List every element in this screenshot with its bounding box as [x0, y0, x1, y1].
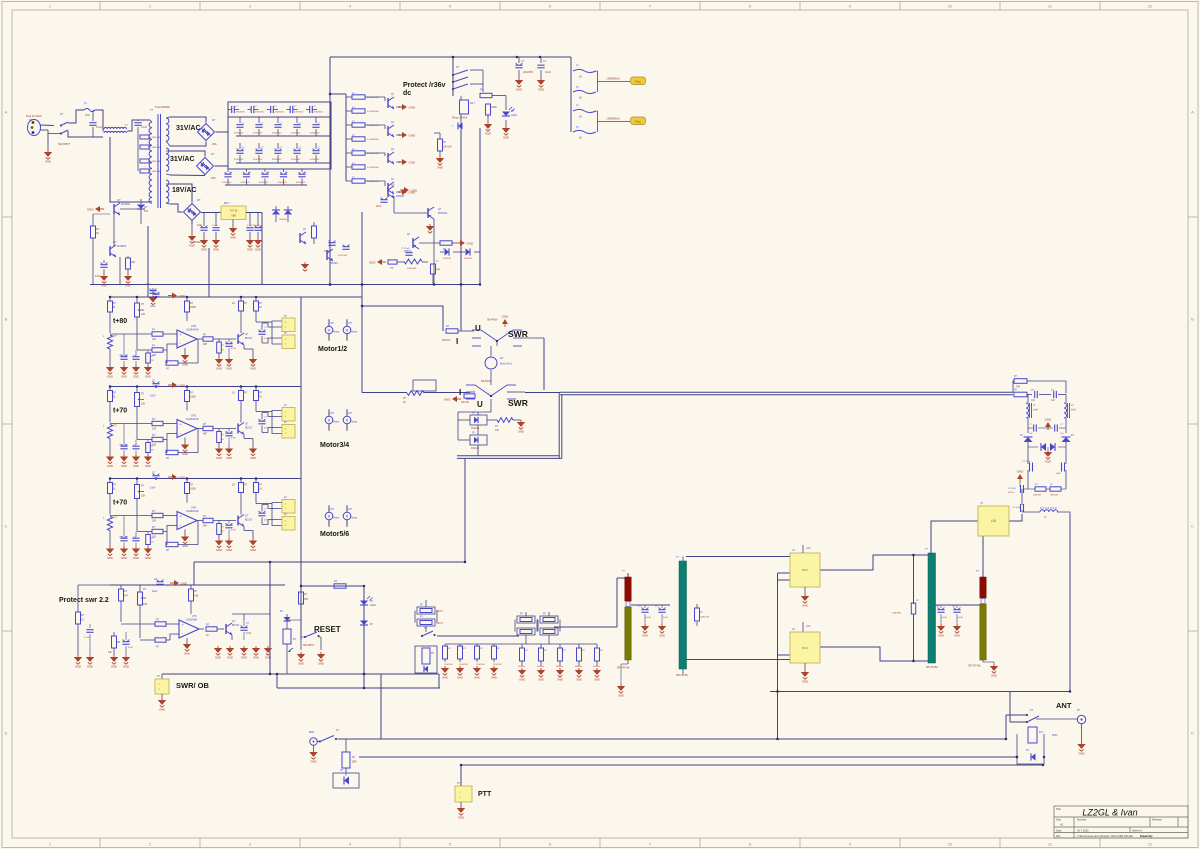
- motor M7: [485, 357, 497, 369]
- svg-text:C:\Documents and Settings\..\S: C:\Documents and Settings\..\Short 6M1 k…: [1077, 834, 1133, 838]
- svg-text:M: M: [346, 329, 349, 333]
- capacitor 47uF protect: [405, 252, 412, 254]
- svg-text:1K: 1K: [81, 619, 84, 622]
- wire regulator rail drop x148: [147, 226, 149, 297]
- capacitor rail swr: [156, 581, 163, 583]
- wire swr feed step: [362, 306, 443, 331]
- svg-text:K?: K?: [336, 728, 340, 732]
- svg-text:Motor: Motor: [333, 421, 339, 424]
- svg-text:B: B: [5, 317, 8, 322]
- resistor 6L: [109, 297, 111, 301]
- ground relay A: [804, 587, 806, 594]
- ground row swr left: [74, 655, 82, 669]
- ground: [144, 455, 152, 469]
- svg-text:22uF: 22uF: [376, 205, 382, 208]
- svg-text:GND: GND: [145, 464, 151, 468]
- motor M2: [343, 326, 351, 334]
- svg-text:3K: 3K: [96, 232, 99, 235]
- svg-text:560K/m: 560K/m: [518, 666, 525, 668]
- capacitor 47uF out: [240, 509, 242, 515]
- wire relay pins vertical: [777, 573, 779, 739]
- ground arrow left lower swr: [444, 396, 461, 402]
- svg-text:C? 16nF: C? 16nF: [1022, 461, 1031, 463]
- pass transistor Q 2N3442 row4: [387, 183, 389, 193]
- svg-text:C? 1uF: C? 1uF: [119, 445, 127, 447]
- wire x209 drop: [208, 248, 210, 297]
- svg-text:GND: GND: [642, 634, 648, 638]
- svg-text:GND: GND: [45, 160, 51, 164]
- svg-text:4700/16V: 4700/16V: [338, 255, 348, 257]
- antenna relay loop: [1017, 734, 1044, 764]
- svg-text:C: C: [1191, 524, 1194, 529]
- wire bridge D1 out: [216, 131, 229, 133]
- svg-text:GND: GND: [255, 248, 261, 252]
- resistor 1K bottom: [147, 532, 149, 535]
- wire bottom rail y284: [90, 284, 480, 286]
- connector J2: [282, 335, 295, 349]
- svg-text:I: I: [459, 388, 461, 397]
- svg-text:GND: GND: [87, 665, 93, 669]
- resistor 100K/1W right: [911, 603, 915, 614]
- ground: [225, 357, 233, 371]
- ground op-amp: [181, 535, 189, 549]
- wire primary bottom: [110, 137, 150, 202]
- diode reset: [360, 621, 368, 626]
- svg-text:4700/50V: 4700/50V: [296, 182, 306, 184]
- potentiometer 10K: [136, 297, 138, 303]
- bleeder resistors 1.2M: [138, 133, 160, 173]
- ground: [106, 455, 114, 469]
- resistor 3K: [92, 222, 94, 226]
- feedback resistor: [166, 350, 167, 363]
- ground op-amp swr: [186, 638, 188, 642]
- resistor 160B: [186, 297, 188, 301]
- svg-text:560K/m: 560K/m: [537, 666, 544, 668]
- svg-text:4700/50V: 4700/50V: [310, 159, 320, 161]
- resistor pair 74K74 B: [515, 612, 537, 644]
- svg-text:GND: GND: [125, 284, 131, 288]
- svg-text:1N4148: 1N4148: [471, 428, 480, 430]
- svg-text:Fan: Fan: [635, 119, 641, 123]
- svg-text:D: D: [5, 731, 8, 736]
- antenna connector: [1077, 715, 1085, 723]
- diode up b: [1065, 428, 1067, 433]
- svg-text:LM2904AB: LM2904AB: [186, 329, 199, 332]
- capacitor 470uF: [1019, 482, 1021, 487]
- svg-text:4700/50V: 4700/50V: [253, 132, 263, 134]
- ground: [518, 668, 526, 682]
- svg-text:GND: GND: [802, 680, 808, 684]
- connector P1 AC plug: [26, 114, 54, 136]
- ground: [124, 274, 132, 288]
- diode 1N4148 b: [453, 251, 465, 253]
- capacitor 1uF b: [135, 532, 137, 537]
- svg-text:10K: 10K: [152, 520, 157, 523]
- svg-text:14B: 14B: [194, 595, 199, 598]
- svg-text:150B: 150B: [491, 106, 497, 109]
- svg-text:t+70: t+70: [113, 500, 127, 507]
- svg-text:1K: 1K: [232, 302, 235, 305]
- resistor 15K reset: [300, 588, 302, 592]
- led bar red right: [980, 577, 986, 598]
- ground arrow up right cluster: [1045, 418, 1053, 431]
- thermistor K: [109, 494, 111, 515]
- wire vertical x571 fan fuse feed: [570, 57, 572, 132]
- input resistor a: [152, 513, 163, 517]
- svg-text:GND: GND: [133, 464, 139, 468]
- diode 1N4148 box a: [470, 415, 487, 425]
- svg-text:4700/50V: 4700/50V: [272, 159, 282, 161]
- led D reset: [360, 601, 368, 606]
- switch S1 SW DPDT: [48, 112, 70, 146]
- ground: [593, 668, 601, 682]
- resistor on led wire: [334, 584, 346, 588]
- svg-text:K?: K?: [1030, 708, 1034, 712]
- resistor 6L: [109, 387, 111, 391]
- svg-text:GND: GND: [159, 708, 165, 712]
- resistor 560K/1W 4: [578, 644, 580, 648]
- capacitor 47uF right b: [956, 605, 958, 608]
- svg-text:10uF: 10uF: [150, 487, 156, 490]
- svg-text:GND: GND: [201, 248, 207, 252]
- ground: [212, 238, 220, 252]
- wire op-amp block rail: [110, 296, 301, 298]
- svg-text:SWR: SWR: [508, 398, 528, 408]
- capacitor on rail: [152, 288, 154, 290]
- svg-text:GND: GND: [121, 375, 127, 379]
- svg-text:GND: GND: [179, 475, 187, 479]
- svg-text:BNC: BNC: [309, 730, 315, 734]
- ground: [225, 447, 233, 461]
- svg-text:GND: GND: [298, 662, 304, 666]
- svg-text:22K/1W: 22K/1W: [443, 146, 452, 149]
- svg-text:LED1: LED1: [511, 114, 518, 117]
- svg-text:K?*: K?*: [113, 425, 117, 428]
- ground reset b: [317, 652, 325, 666]
- led bar red left: [625, 577, 631, 601]
- trimmer 10K swr: [113, 632, 115, 636]
- svg-text:B: B: [1191, 317, 1194, 322]
- ground arrow left: [87, 206, 104, 212]
- svg-text:Motor: Motor: [351, 331, 357, 334]
- svg-text:GND: GND: [411, 188, 419, 192]
- op-amp U LM2904AB: [177, 512, 197, 530]
- resistor 1K b: [255, 479, 257, 483]
- output resistor 4B7: [203, 426, 213, 430]
- wire transformer to bridge D3: [170, 184, 192, 203]
- wire block1 rail extension: [301, 296, 362, 298]
- svg-text:47uF: 47uF: [95, 275, 101, 278]
- svg-text:47uF: 47uF: [942, 617, 948, 619]
- ground reset a: [297, 652, 305, 666]
- svg-text:GND: GND: [241, 656, 247, 660]
- capacitor 16nF d: [1065, 447, 1067, 464]
- fuse pair F4 F5: [571, 105, 630, 140]
- svg-text:C: C: [5, 524, 8, 529]
- output resistor 4B7: [203, 337, 213, 341]
- svg-text:GND: GND: [457, 676, 463, 680]
- wire swr lower single: [362, 392, 407, 394]
- ground: [490, 666, 498, 680]
- bridge rectifier D3: [184, 204, 201, 221]
- svg-text:GND: GND: [87, 207, 95, 211]
- svg-text:K?*: K?*: [113, 517, 117, 520]
- resistor 14K swr: [487, 419, 497, 421]
- power +5V stub A: [802, 545, 804, 553]
- wire bias links: [113, 214, 115, 246]
- resistor 1K emitter: [218, 521, 220, 524]
- rotary switch SWR upper: [472, 319, 522, 347]
- wire ptt drop: [460, 765, 462, 786]
- wire to splitter top: [617, 573, 628, 578]
- resistor 160B: [186, 479, 188, 483]
- svg-text:GND: GND: [491, 676, 497, 680]
- capacitor 10nF b: [1053, 391, 1055, 398]
- svg-text:10A: 10A: [85, 113, 90, 117]
- svg-text:4700/50V: 4700/50V: [253, 159, 263, 161]
- ground: [515, 78, 523, 92]
- svg-text:GND: GND: [226, 456, 232, 460]
- resistor 100K/1W left teal: [696, 622, 698, 626]
- svg-text:18V/AC: 18V/AC: [172, 187, 197, 194]
- ground: [426, 224, 434, 233]
- capacitor 16nF b: [1048, 427, 1053, 429]
- svg-text:1uF: 1uF: [133, 537, 137, 539]
- led D LED1: [502, 112, 510, 117]
- svg-text:5A: 5A: [579, 97, 582, 100]
- svg-text:14K: 14K: [495, 430, 500, 432]
- capacitor 47uF bar b: [661, 605, 663, 608]
- resistor 1K a: [240, 479, 242, 483]
- rotary switch SWR lower: [466, 380, 516, 399]
- capacitor 0.1uF input: [92, 110, 94, 121]
- resistor box mid: [415, 646, 437, 673]
- capacitor 47uF out: [240, 327, 242, 333]
- wire protect link: [393, 196, 395, 213]
- capacitor 47uF b: [328, 242, 335, 244]
- svg-text:10: 10: [948, 841, 953, 846]
- svg-text:5A: 5A: [579, 137, 582, 140]
- ground: [556, 668, 564, 682]
- input resistor swr b: [155, 638, 166, 642]
- ground: [473, 666, 481, 680]
- wire ant feed x1006: [1005, 715, 1007, 739]
- ground: [120, 455, 128, 469]
- svg-text:150K/1W: 150K/1W: [493, 664, 502, 666]
- svg-text:10: 10: [948, 3, 953, 8]
- ground bnc: [313, 745, 315, 750]
- wire reset links: [287, 619, 301, 621]
- svg-text:File:: File:: [1056, 834, 1061, 838]
- svg-text:47uF: 47uF: [246, 633, 252, 635]
- svg-text:D?: D?: [197, 198, 201, 202]
- motor M5: [325, 512, 333, 520]
- svg-text:GND: GND: [179, 383, 187, 387]
- resistor 74K top right: [1014, 379, 1027, 384]
- svg-text:t+70: t+70: [113, 408, 127, 415]
- svg-text:98A: 98A: [436, 268, 440, 271]
- svg-text:2N3904: 2N3904: [117, 244, 127, 248]
- ground: [249, 539, 257, 553]
- svg-text:GND: GND: [618, 694, 624, 698]
- svg-text:4700/50V: 4700/50V: [291, 159, 301, 161]
- svg-text:150K/1W: 150K/1W: [459, 664, 468, 666]
- resistor zigzag 4K: [407, 391, 424, 396]
- svg-text:74K: 74K: [1016, 387, 1021, 389]
- svg-text:L7152B: L7152B: [1008, 488, 1016, 490]
- svg-text:Motor: Motor: [333, 331, 339, 334]
- ground: [100, 274, 108, 288]
- capacitor 47uF swr in: [125, 632, 127, 640]
- ground bridge3: [191, 222, 193, 235]
- transistor 2N5551: [299, 233, 301, 243]
- svg-text:4700/50V: 4700/50V: [310, 132, 320, 134]
- transistor 2N5963: [387, 187, 389, 197]
- resistor 6L: [109, 479, 111, 483]
- svg-text:GND: GND: [265, 656, 271, 660]
- zener reset: [286, 614, 288, 617]
- title block: [1054, 806, 1188, 838]
- junction dots block rail: [109, 385, 111, 387]
- diode relay clamp: [458, 122, 463, 129]
- svg-text:2N3904: 2N3904: [121, 202, 131, 206]
- power arrow: [168, 382, 186, 388]
- feedback resistor: [166, 440, 167, 453]
- junction dots block rail: [109, 296, 111, 298]
- svg-text:1nF: 1nF: [1031, 400, 1036, 402]
- resistor pair 74K74 A: [415, 600, 443, 632]
- wire left pins relayA: [778, 572, 791, 574]
- splitter teal bar right: [928, 553, 936, 663]
- svg-text:1nF: 1nF: [1051, 400, 1056, 402]
- capacitor 47uF: [103, 260, 105, 263]
- svg-text:GND: GND: [107, 556, 113, 560]
- svg-text:SWR: SWR: [508, 329, 528, 339]
- thermistor K: [109, 402, 111, 423]
- svg-text:GND: GND: [538, 88, 544, 92]
- svg-text:16.7.2016: 16.7.2016: [1077, 829, 1089, 833]
- resistor 560K/1W 5: [596, 644, 598, 648]
- resistor 150K/1W 4: [493, 644, 495, 646]
- ground ptt: [460, 802, 462, 806]
- wires to connectors: [256, 321, 272, 323]
- wires diode cluster: [477, 412, 479, 415]
- svg-text:160B: 160B: [190, 396, 196, 399]
- svg-text:P?: P?: [1077, 708, 1081, 712]
- ground at plug: [47, 130, 49, 150]
- svg-text:1.2M/0.5W: 1.2M/0.5W: [150, 171, 160, 173]
- wire rf bus y739: [338, 738, 1006, 740]
- svg-text:GND: GND: [133, 556, 139, 560]
- capacitor 0.1uF second: [137, 120, 139, 121]
- svg-text:100K/1W: 100K/1W: [700, 617, 710, 619]
- capacitor 0.1uF top: [540, 57, 542, 63]
- svg-text:GND: GND: [230, 236, 236, 240]
- ground: [484, 122, 492, 136]
- inductor L1 line filter: [103, 120, 150, 133]
- ground: [627, 660, 629, 664]
- svg-text:SPLTR BA: SPLTR BA: [676, 674, 688, 677]
- svg-text:10K/1%: 10K/1%: [461, 402, 469, 404]
- svg-text:Motor: Motor: [351, 517, 357, 520]
- resistor 160B: [186, 387, 188, 391]
- wire swr bus double top: [560, 391, 1013, 393]
- svg-text:Sheet of: Sheet of: [1132, 829, 1142, 833]
- svg-text:GND: GND: [442, 676, 448, 680]
- svg-text:10K: 10K: [131, 261, 136, 264]
- svg-text:GND: GND: [444, 397, 452, 401]
- transistor Q2 2N3904: [109, 246, 111, 256]
- capacitor 1uF b: [135, 440, 137, 445]
- wire x461 to swr resistor: [460, 286, 462, 331]
- svg-text:M: M: [346, 419, 349, 423]
- transformer right 1mH: [1064, 403, 1067, 418]
- svg-text:4700/50V: 4700/50V: [278, 182, 288, 184]
- svg-text:15K/1%: 15K/1%: [442, 339, 451, 342]
- svg-text:BD137: BD137: [245, 427, 253, 430]
- resistor 560K/1W 1: [521, 644, 523, 648]
- svg-text:4700/50V: 4700/50V: [234, 159, 244, 161]
- svg-text:1K: 1K: [259, 306, 262, 309]
- svg-text:A2: A2: [1060, 823, 1064, 827]
- svg-text:RL?: RL?: [470, 101, 475, 105]
- wire y636 mid: [437, 635, 519, 637]
- op-amp U LM2904AB: [177, 330, 197, 348]
- svg-text:U: U: [477, 400, 483, 409]
- relay RL2 box B: [790, 632, 820, 663]
- resistor 1K: [440, 241, 452, 245]
- svg-text:4700/50V: 4700/50V: [241, 182, 251, 184]
- svg-text:GND: GND: [216, 456, 222, 460]
- power arrow swr rail: [170, 580, 188, 586]
- wire protect-swr rail: [110, 584, 285, 586]
- svg-text:35A: 35A: [212, 142, 217, 146]
- wire bridge D3 out: [191, 221, 193, 224]
- svg-text:GND: GND: [409, 160, 417, 164]
- svg-text:GND: GND: [518, 430, 524, 434]
- wire x1070 vertical: [1069, 515, 1071, 692]
- resistor 14B: [190, 585, 192, 589]
- svg-text:RK2: RK2: [802, 568, 808, 572]
- svg-text:C? 1uF: C? 1uF: [119, 537, 127, 539]
- diode up a: [1027, 428, 1029, 433]
- ground: [436, 156, 444, 170]
- svg-text:GND: GND: [123, 665, 129, 669]
- svg-text:10K: 10K: [108, 652, 113, 654]
- wire y688 horizontal: [277, 687, 440, 689]
- connector J1: [282, 408, 295, 422]
- svg-text:GND: GND: [409, 133, 417, 137]
- wire swr bus double lower: [457, 455, 559, 457]
- ground op-amp: [181, 353, 189, 367]
- wire teal2 to U8: [931, 521, 978, 553]
- svg-text:10K: 10K: [141, 495, 146, 498]
- potentiometer 10K swr: [139, 585, 141, 592]
- svg-text:1mH: 1mH: [1071, 410, 1076, 412]
- svg-text:98Z: 98Z: [390, 268, 394, 270]
- wire x194 drop: [193, 562, 195, 585]
- svg-text:Motor5/6: Motor5/6: [320, 531, 349, 538]
- ballast resistor bank 0R1/10W: [346, 93, 380, 183]
- resistor pair 74K74 C: [538, 612, 560, 644]
- svg-text:GND: GND: [189, 244, 195, 248]
- svg-text:GND: GND: [437, 166, 443, 170]
- svg-text:0.1uF 100uF: 0.1uF 100uF: [247, 225, 260, 227]
- output resistor swr: [206, 627, 217, 631]
- input resistor a: [152, 421, 163, 425]
- relay driver U8 box: [978, 506, 1009, 536]
- transformer left 1mH: [1026, 403, 1029, 418]
